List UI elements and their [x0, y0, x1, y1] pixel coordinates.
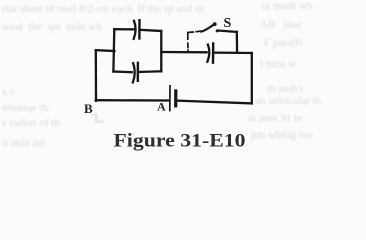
circuit ink [96, 20, 252, 110]
svg-text:at anot 91 te: at anot 91 te [248, 112, 302, 124]
background bleed-through text [2, 0, 321, 149]
svg-text:il anla ate: il anla ate [2, 137, 45, 149]
battery: short thick plate (negative) [174, 91, 177, 106]
svg-text:F paraffi: F paraffi [264, 37, 302, 49]
svg-text:B: B [84, 101, 93, 116]
svg-text:S: S [224, 16, 232, 31]
switch S: lever arm [201, 25, 213, 32]
wire: right vertical [251, 53, 253, 103]
svg-text:rlar sheet of resil 8/2 cm eac: rlar sheet of resil 8/2 cm each. If the … [2, 3, 205, 15]
wire: C3 to right corner [213, 51, 252, 54]
capacitor C2 right plate [137, 63, 139, 81]
svg-text:A: A [157, 100, 166, 114]
wire: bottom branch left of C2 [113, 70, 131, 73]
wire: left vertical riser from B [95, 50, 97, 101]
wire: switch to right riser [219, 31, 237, 32]
switch S: lever tip dot [213, 22, 217, 26]
svg-text:ah arthicalar th: ah arthicalar th [255, 95, 321, 107]
wire: switch branch right riser [236, 32, 239, 53]
wire: parallel box left side [112, 29, 115, 71]
svg-text:jun whtilg lwr: jun whtilg lwr [250, 129, 314, 141]
svg-text:Figure 31-E10: Figure 31-E10 [114, 130, 246, 151]
svg-text:erteniae th: erteniae th [2, 102, 49, 114]
svg-text:weal the spr mile wh: weal the spr mile wh [2, 21, 102, 33]
battery: long plate (positive) [169, 86, 171, 111]
wire: bottom right (battery to right corner) [178, 101, 252, 104]
capacitor C1 left curved plate [134, 21, 136, 39]
capacitor C1 right plate [138, 20, 141, 38]
switch S: fixed contact dot [216, 29, 219, 32]
wire: output of box to C3 [161, 51, 206, 54]
capacitor C2 left curved plate [133, 63, 135, 82]
svg-text:in mash wh: in mash wh [262, 0, 313, 12]
svg-text:th amb t: th amb t [267, 83, 303, 95]
wire: parallel box right side [160, 31, 162, 71]
capacitor C3 right plate [212, 43, 215, 62]
switch branch: dashed riser left [187, 33, 189, 52]
wire: top branch left of C1 [114, 28, 134, 30]
capacitor C3 left curved plate [207, 45, 209, 62]
wire: entry into parallel box [96, 49, 115, 52]
svg-text:t nutu w: t nutu w [260, 58, 296, 70]
wire: top branch right of C1 [140, 30, 162, 31]
wire: bottom branch right of C2 [138, 70, 161, 73]
svg-text:x c: x c [2, 86, 15, 98]
faint pencil squiggle near B [92, 114, 104, 122]
svg-text:e radius of th: e radius of th [2, 117, 60, 129]
wire: bottom left (node B to battery) [96, 99, 169, 102]
svg-text:AB liter: AB liter [260, 19, 302, 31]
switch branch: dashed horizontal [188, 31, 201, 32]
